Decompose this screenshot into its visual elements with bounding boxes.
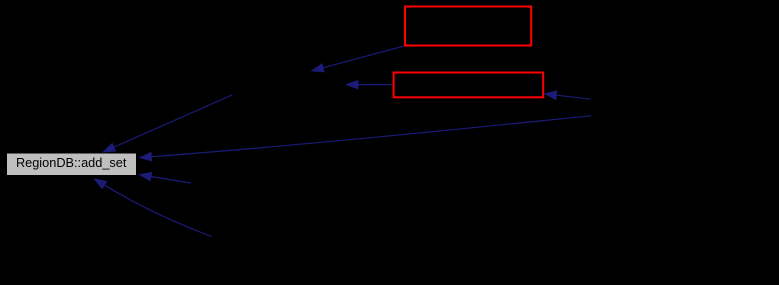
node box R1 (red truncated node, top) [405, 7, 531, 46]
node box R2 (red truncated node, middle) [394, 73, 544, 98]
arrowhead E7 [93, 178, 107, 189]
edge E4 wire (into gray node top edge) [114, 95, 232, 147]
arrowhead E3 [543, 90, 557, 100]
edge E3 wire (into R2 right edge) [557, 95, 591, 99]
edge E2 wire (from R2 left edge, horizontal) [359, 84, 393, 86]
arrowhead E1 [311, 63, 325, 72]
edge E5 wire (long edge into gray node right edge, upper) [152, 116, 591, 157]
edge E7 wire (curved edge into gray node bottom edge) [105, 185, 212, 236]
arrowhead E6 [138, 172, 152, 182]
arrowhead E2 [345, 80, 359, 90]
node RegionDB::add_set (gray filled box) [7, 153, 137, 176]
edge E6 wire (short edge into gray node right edge, lower) [152, 177, 192, 183]
arrowhead E5 [138, 152, 152, 162]
arrowhead E4 [102, 143, 116, 153]
svg-text:RegionDB::add_set: RegionDB::add_set [16, 155, 127, 170]
edge E1 wire (from R1 bottom-left corner to hidden node) [324, 46, 405, 68]
